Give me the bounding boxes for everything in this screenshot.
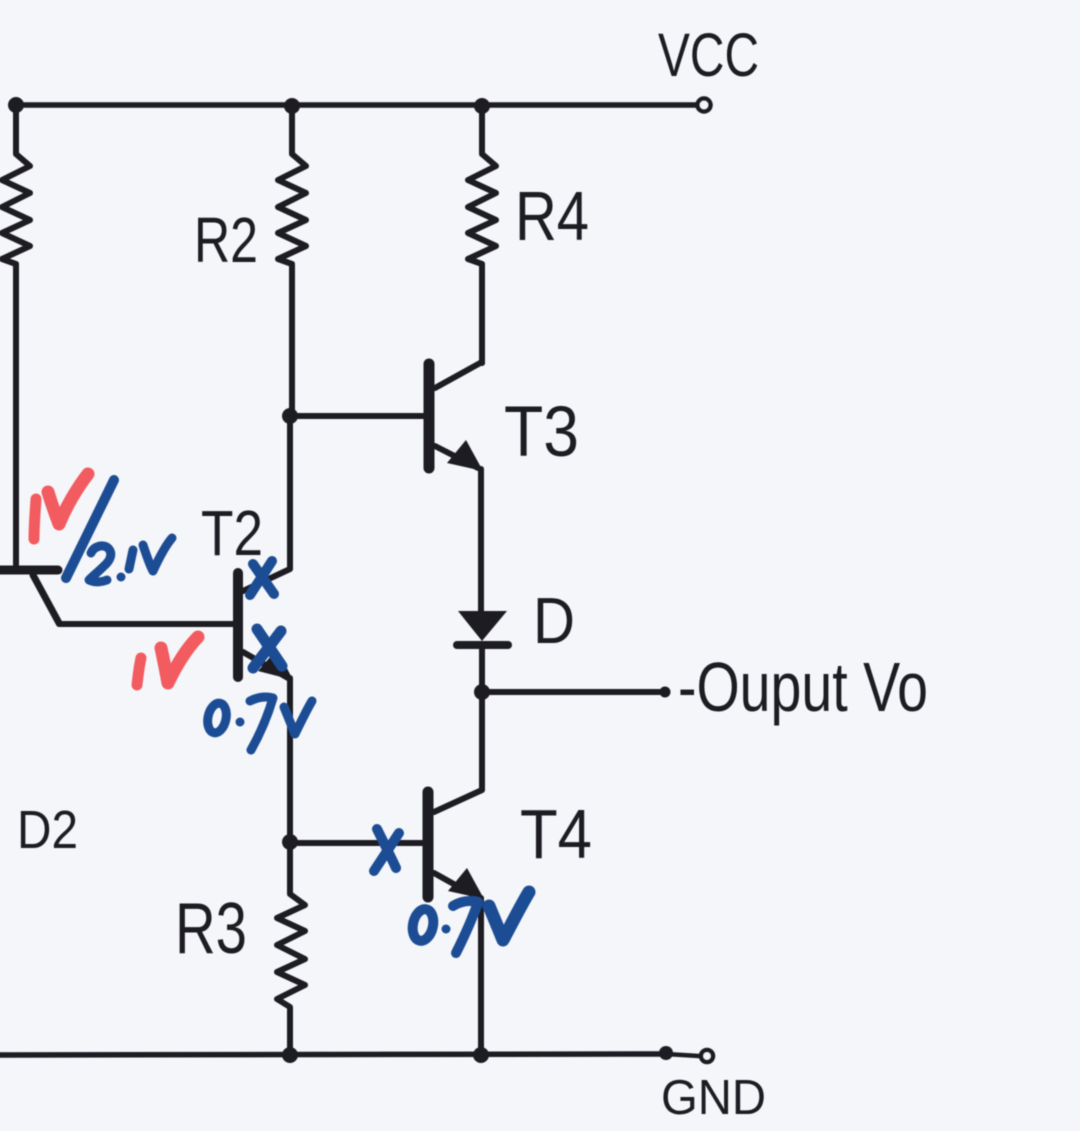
wire bottom GND rail [0, 1054, 666, 1055]
node VCC rail junction R1 [8, 97, 24, 113]
svg-text:T4: T4 [520, 795, 592, 873]
svg-text:-Ouput Vo: -Ouput Vo [678, 648, 928, 726]
svg-text:VCC: VCC [658, 21, 759, 89]
svg-text:D: D [533, 584, 575, 657]
svg-text:T2: T2 [201, 497, 263, 569]
resistor R2 [278, 106, 306, 415]
node output junction [474, 684, 490, 700]
node output terminal dot [660, 687, 671, 698]
GND terminal circle [701, 1050, 713, 1062]
annotation blue 2.1V [89, 538, 172, 582]
wire GND stub [666, 1054, 699, 1056]
svg-text:GND: GND [661, 1071, 766, 1125]
svg-text:R4: R4 [515, 177, 589, 255]
transistor T1 (partial at left edge) [0, 566, 58, 575]
svg-text:R2: R2 [194, 204, 258, 276]
node GND rail junction T4-emitter [473, 1047, 489, 1063]
node VCC rail junction R2 [284, 98, 300, 114]
diode D [457, 611, 508, 692]
node VCC rail junction R4 [474, 98, 490, 114]
annotation blue slash [66, 480, 114, 578]
wire junction to T4 base [290, 840, 423, 846]
transistor T3 [429, 362, 483, 613]
annotation blue 0.7V at T4 [410, 892, 529, 953]
svg-text:R3: R3 [175, 889, 247, 969]
annotation blue x upper at T2 [250, 561, 274, 595]
wire output [482, 689, 660, 695]
resistor R4 [468, 106, 496, 363]
transistor T2 [238, 416, 293, 842]
annotation blue 0.7V at T2 [205, 697, 312, 750]
resistor R1 (partial, label offscreen) [2, 105, 30, 566]
svg-text:D2: D2 [17, 800, 78, 860]
transistor T4 [428, 692, 484, 1055]
VCC terminal circle [698, 99, 711, 112]
resistor R3 [277, 842, 305, 1055]
node GND rail end dot [659, 1046, 673, 1060]
node GND rail junction R3 [282, 1047, 298, 1063]
annotation blue X lower at T2 [253, 629, 282, 668]
svg-text:T3: T3 [504, 393, 579, 472]
annotation red 1V lower [137, 637, 198, 685]
wire top VCC rail [15, 102, 696, 108]
node junction R2 T2-collector T3-base [282, 408, 298, 424]
annotation red 1V upper [34, 474, 88, 539]
node junction T2-emitter R3 T4-base [282, 834, 298, 850]
wire junction to T3 base [290, 413, 424, 419]
wire T1 emitter to T2 base [59, 621, 234, 627]
annotation blue x at T4 [374, 829, 399, 871]
